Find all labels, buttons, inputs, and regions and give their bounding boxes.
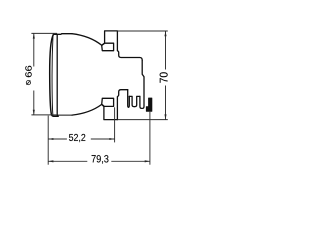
black terminal [146,98,152,111]
top mounting tab [102,31,143,60]
label 66 [25,66,31,77]
dim line 52,2 [48,138,114,140]
extension line top right [118,30,168,32]
label 70 [160,72,168,82]
arrow 79,3 left [48,160,53,162]
lens top edge and rim top [53,33,72,36]
diameter symbol [26,80,30,84]
bottom flag plate [102,98,114,106]
body bottom cone [72,104,102,115]
lens rear seam [56,34,58,116]
extension line bottom right [118,119,168,121]
extension line left vertical [47,116,49,165]
arrow 52,2 right [109,138,114,140]
dim line 79,3 [48,160,150,162]
rear housing wall [140,60,144,108]
body top cone [72,34,102,46]
dim line d66 [33,33,35,115]
extension line 79 right [149,112,151,165]
connector ledge and slot [129,96,140,106]
top flag plate [102,43,114,51]
arrow 70 top [164,31,166,36]
arrow d66 top [33,33,35,38]
arrow d66 bottom [33,110,35,115]
extension line bottom left [31,114,57,116]
bottom shelf [117,90,127,120]
arrow 70 bottom [164,114,166,119]
pin 1 [128,90,130,108]
rim bottom edge [57,114,72,116]
lens outer curve [50,35,59,117]
dim line 70 [165,31,167,120]
extension line top left [31,32,57,34]
label 52,2 [69,134,85,142]
arrow 52,2 left [48,138,53,140]
extension line 52 right [114,107,116,142]
bottom mounting tab [102,104,118,119]
label 79,3 [92,155,109,164]
lens inner edge [51,35,54,115]
arrow 79,3 right [145,160,150,162]
